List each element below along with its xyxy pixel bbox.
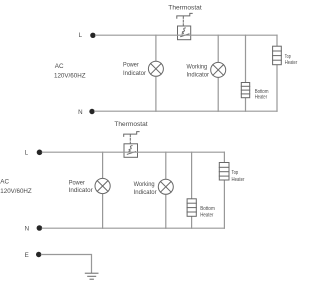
thermostat TH1 bimetal element: [182, 28, 185, 34]
svg-text:Indicator: Indicator: [123, 70, 146, 77]
thermostat TH2 contact blade: [127, 152, 135, 155]
label Working Indicator (bottom circuit): [134, 181, 157, 196]
wire earth lead: [41, 255, 91, 273]
svg-text:Heater: Heater: [200, 213, 213, 219]
lamp power indicator (top circuit): [148, 61, 163, 76]
lamp power indicator (bottom circuit): [95, 178, 110, 193]
svg-text:E: E: [25, 252, 29, 259]
svg-text:AC: AC: [55, 63, 64, 70]
svg-text:Working: Working: [134, 181, 155, 188]
thermostat dashed link (top circuit): [182, 16, 184, 25]
label Bottom Heater (bottom circuit): [200, 206, 215, 219]
thermostat TH1 contact blade: [181, 34, 189, 37]
thermostat TH2 bimetal element: [129, 146, 132, 152]
thermostat TH2 box: [124, 144, 138, 158]
wire L line (top circuit): [96, 34, 277, 36]
svg-text:120V/60HZ: 120V/60HZ: [54, 73, 86, 80]
svg-text:N: N: [78, 109, 82, 116]
heater top heater element (bottom circuit): [219, 163, 229, 181]
thermostat dashed link (bottom circuit): [129, 135, 131, 144]
thermostat actuator lever (top circuit): [177, 13, 192, 18]
wire power indicator branch (top circuit): [155, 35, 157, 111]
label Power Indicator (top circuit): [123, 62, 146, 77]
svg-text:AC: AC: [0, 178, 9, 185]
wire working indicator branch (bottom circuit): [165, 152, 167, 228]
thermostat actuator lever (bottom circuit): [124, 132, 139, 137]
heater bottom heater element (bottom circuit): [187, 199, 196, 217]
wire right vertical / top heater branch (top circuit): [276, 35, 278, 111]
label Bottom Heater (top circuit): [255, 89, 269, 101]
svg-text:Thermostat: Thermostat: [168, 4, 202, 11]
label AC 120V/60HZ (top circuit): [54, 63, 86, 79]
lamp working indicator (bottom circuit): [158, 179, 173, 194]
node N (top circuit): [89, 109, 94, 114]
wire L line (bottom circuit): [42, 151, 224, 153]
svg-text:Indicator: Indicator: [187, 71, 210, 78]
wire bottom heater branch (bottom circuit): [191, 152, 193, 228]
thermostat TH1 box: [178, 26, 191, 40]
label Top Heater (bottom circuit): [232, 170, 245, 183]
svg-text:Thermostat: Thermostat: [114, 121, 147, 128]
wire right vertical / top heater branch (bottom circuit): [223, 152, 225, 228]
svg-text:Bottom: Bottom: [200, 206, 215, 212]
heater bottom heater element (top circuit): [241, 83, 249, 98]
svg-text:Indicator: Indicator: [69, 187, 93, 194]
label Top Heater (top circuit): [285, 54, 297, 66]
svg-text:Heater: Heater: [255, 95, 267, 101]
node L (top circuit): [90, 33, 95, 38]
svg-text:L: L: [79, 32, 83, 39]
label AC 120V/60HZ (bottom circuit): [0, 178, 32, 195]
svg-text:120V/60HZ: 120V/60HZ: [0, 188, 32, 195]
svg-text:Top: Top: [232, 170, 239, 176]
svg-text:Working: Working: [187, 63, 208, 70]
svg-text:Heater: Heater: [232, 177, 245, 183]
node N (bottom circuit): [37, 225, 43, 231]
svg-text:Power: Power: [123, 62, 139, 69]
label Power Indicator (bottom circuit): [69, 179, 93, 194]
wire bottom heater branch (top circuit): [245, 35, 247, 111]
lamp working indicator (top circuit): [211, 62, 226, 77]
node E earth terminal: [36, 252, 41, 257]
svg-text:Heater: Heater: [285, 60, 297, 66]
label Working Indicator (top circuit): [187, 63, 210, 78]
svg-text:Indicator: Indicator: [134, 189, 157, 196]
heater top heater element (top circuit): [273, 46, 282, 64]
svg-text:N: N: [25, 226, 29, 233]
wire working indicator branch (top circuit): [217, 35, 219, 111]
wire N line (bottom circuit): [42, 227, 224, 229]
svg-text:Power: Power: [69, 179, 85, 186]
wire power indicator branch (bottom circuit): [102, 152, 104, 228]
node L (bottom circuit): [37, 150, 43, 156]
wire N line (top circuit): [95, 110, 277, 112]
svg-text:L: L: [25, 150, 29, 157]
ground symbol: [85, 273, 98, 279]
